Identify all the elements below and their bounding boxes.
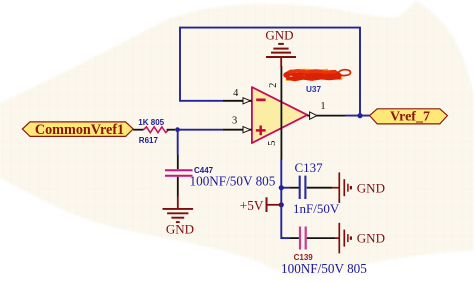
pin 1 arrow [310,112,317,119]
minus symbol [256,99,265,102]
svg-text:1K 805: 1K 805 [138,118,164,127]
svg-text:100NF/50V 805: 100NF/50V 805 [190,174,276,189]
wire node to C447 [177,130,179,155]
svg-text:+5V: +5V [240,198,264,213]
svg-text:1: 1 [320,101,325,112]
C447 pin top [177,155,179,169]
pin 2 / pin 5 vertical line [280,66,282,160]
pin 1 output [307,115,345,117]
stub [280,58,282,68]
svg-text:GND: GND [357,180,385,195]
red scribble over part value [286,70,351,80]
svg-text:Vref_7: Vref_7 [390,110,430,125]
C137 pin left [290,187,299,189]
svg-text:2: 2 [268,83,279,88]
svg-text:100NF/50V 805: 100NF/50V 805 [281,261,367,276]
op-amp U37 [252,87,307,143]
wire port to R617 [133,129,143,131]
capacitor C137 [300,176,306,199]
svg-text:5: 5 [267,141,278,146]
svg-text:1nF/50V: 1nF/50V [293,201,340,216]
port CommonVref1 [22,122,133,138]
junction node output/Vref_7 [357,113,362,118]
junction node C137 branch [279,185,284,190]
capacitor C447 [165,170,193,176]
pin 3 arrow [243,127,250,133]
wire R617 to node [167,129,175,131]
C447 pin bottom [177,177,179,197]
svg-text:GND: GND [265,28,293,43]
C139 pin left [290,237,299,239]
svg-text:CommonVref1: CommonVref1 [35,122,124,138]
svg-text:GND: GND [166,221,194,236]
ground GND below C447 [163,196,195,236]
resistor R617 [144,127,169,133]
wire pin3 from node [178,129,224,131]
power +5V [240,197,281,213]
ground GND right of C139 [335,223,385,254]
pin 4 [223,100,252,102]
pin 3 [223,129,252,131]
ground GND top (op-amp pin 2) [265,28,296,67]
wire C139 branch corner [281,237,290,239]
wire feedback loop (output top to pin4) [180,28,360,116]
junction node +5V branch [279,202,284,207]
plus symbol [256,126,266,136]
wire output to Vref_7 [345,115,370,117]
C139 pin right [307,237,336,239]
svg-text:GND: GND [357,231,385,246]
svg-text:R617: R617 [139,136,159,145]
wire main vertical pin5 down [281,159,284,238]
svg-text:C137: C137 [295,160,324,175]
svg-text:3: 3 [232,116,237,127]
svg-text:U37: U37 [306,85,321,94]
ground GND right of C137 [332,172,385,203]
wire C137 branch [281,187,290,189]
pin 4 arrow [243,98,250,104]
junction node R617/pin3/C447 [175,127,180,132]
svg-text:4: 4 [233,88,239,99]
net label Vref_7 [370,109,448,125]
capacitor C139 [300,227,306,250]
C137 pin right [307,187,332,189]
